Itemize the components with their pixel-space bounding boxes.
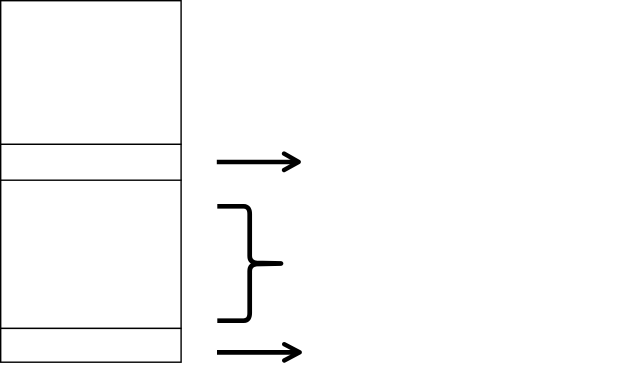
arrow 2 (lower right arrow) xyxy=(217,344,300,360)
box row 1 (top tall rectangle) xyxy=(1,1,181,145)
box row 4 (bottom thin band) xyxy=(1,328,181,362)
brace (right curly bracket) xyxy=(217,206,281,320)
box row 2 (thin band) xyxy=(1,144,181,180)
box row 3 (tall rectangle) xyxy=(1,180,181,328)
arrow 1 (upper right arrow) xyxy=(217,154,299,171)
